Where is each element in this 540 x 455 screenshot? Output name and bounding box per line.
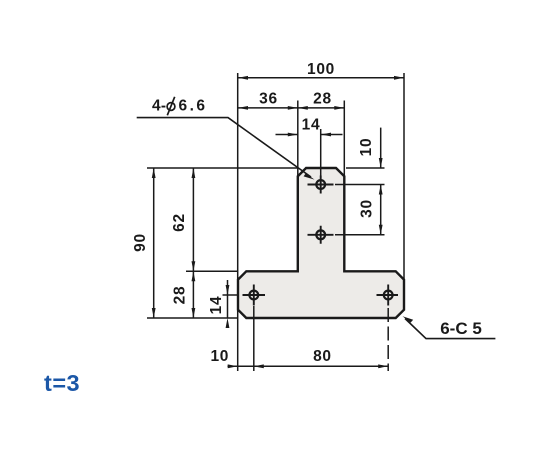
dimension 10 (right, outside arrow) <box>380 128 382 168</box>
hole H1 top (circle + crosshair) <box>308 176 334 194</box>
svg-text:4-: 4- <box>152 98 166 115</box>
hole H4 bottom-right (circle + crosshair) <box>377 285 399 306</box>
hole H3 bottom-left (circle + crosshair) <box>243 285 266 306</box>
ext plate-top to right <box>346 167 385 169</box>
svg-text:90: 90 <box>132 233 149 252</box>
svg-text:80: 80 <box>313 348 332 365</box>
dimension 30 (right) <box>380 185 382 235</box>
ext flange-top to left <box>186 270 238 272</box>
svg-text:6-C 5: 6-C 5 <box>440 319 482 338</box>
svg-text:10: 10 <box>210 348 229 365</box>
extension lines <box>147 73 404 371</box>
leader 4-phi6.6 <box>137 118 311 177</box>
svg-text:14: 14 <box>302 117 321 134</box>
ext below plate left edge <box>237 310 239 371</box>
svg-text:30: 30 <box>359 199 376 218</box>
ext right of 100 dim (x=404) <box>403 73 405 280</box>
ext hole row1 to right <box>335 184 385 186</box>
dimension 14 (top, outside arrows) <box>276 134 343 136</box>
phi symbol <box>167 97 175 116</box>
svg-text:62: 62 <box>171 213 188 232</box>
svg-text:6.6: 6.6 <box>179 98 208 115</box>
plate outline (T-shaped plate, 6 chamfered corners) <box>238 168 404 318</box>
svg-text:t=3: t=3 <box>44 370 80 396</box>
svg-text:28: 28 <box>172 286 189 305</box>
svg-text:14: 14 <box>208 296 225 315</box>
ext plate-top to left <box>147 167 298 169</box>
ext hole column (x=320.7) <box>320 129 322 176</box>
leader 6-C 5 <box>405 319 495 339</box>
ext stem-right (x=344.3) <box>343 101 345 177</box>
svg-text:36: 36 <box>259 91 278 108</box>
ext hole-row tick left (14 dim) <box>223 294 238 296</box>
ext plate-bottom to left <box>147 317 238 319</box>
ext left of 100 dim (x=237.7) <box>237 73 239 280</box>
svg-text:100: 100 <box>307 61 335 78</box>
dimension 14 (bottom-left, outside arrows) <box>227 280 229 318</box>
hole H2 middle (circle + crosshair) <box>308 226 334 244</box>
ext below hole H3 <box>253 306 255 371</box>
dimension 90 (left) <box>153 168 155 318</box>
dimension 100 (top) <box>238 77 404 79</box>
ext below hole H4 (centerline, dashed) <box>387 308 389 371</box>
dimension 10 / 80 (bottom) <box>228 365 389 367</box>
dimension 62 / 28 (left, chained) <box>192 168 194 318</box>
dimension 36 / 28 (chained) <box>238 107 344 109</box>
ext stem-left (x=297.8) <box>297 101 299 177</box>
ext hole row2 to right <box>335 234 385 236</box>
svg-text:10: 10 <box>358 138 375 157</box>
svg-text:28: 28 <box>313 91 332 108</box>
